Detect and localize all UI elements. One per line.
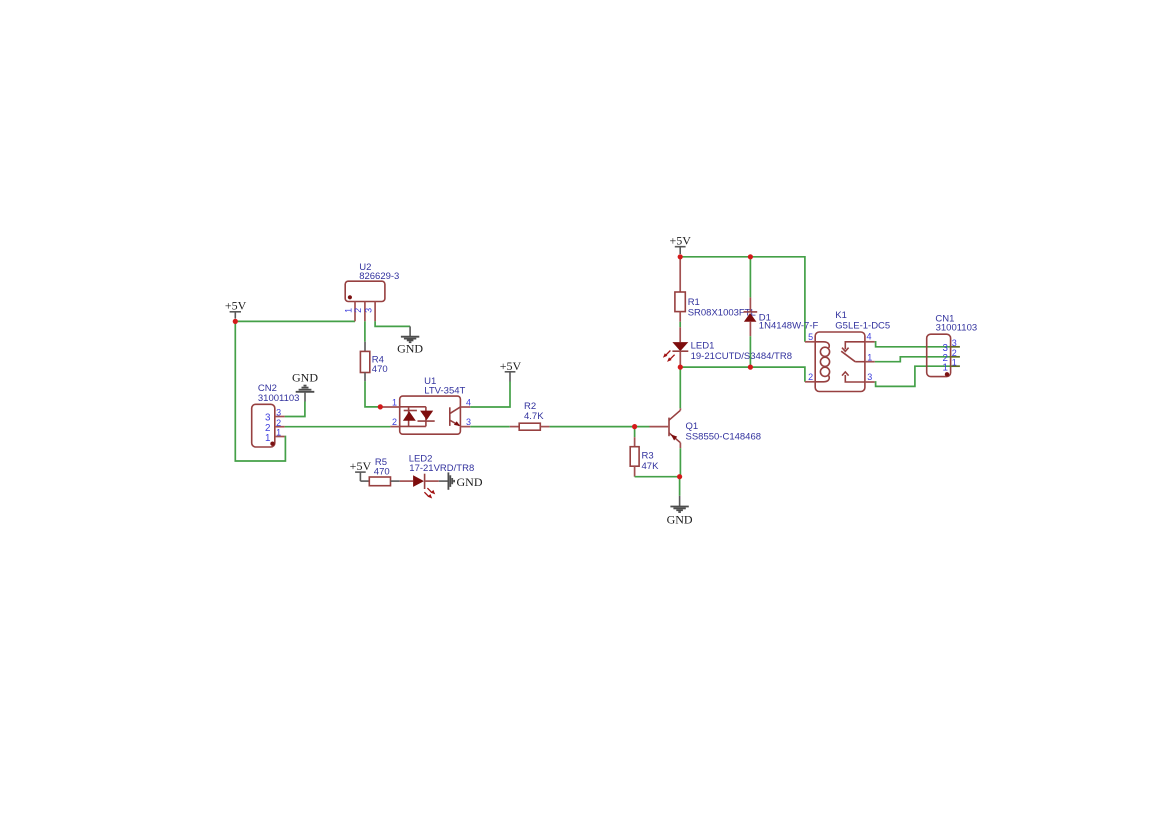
connector U2	[345, 281, 385, 321]
wire K1 pin3 to CN1 pin1	[875, 366, 951, 386]
relay K1 G5LE-1-DC5	[805, 332, 875, 392]
node junction at Q1 emitter / GND	[677, 474, 682, 479]
wire U1 pin3 to R2	[470, 426, 510, 428]
svg-text:826629-3: 826629-3	[359, 271, 399, 282]
svg-text:5: 5	[808, 332, 813, 342]
svg-text:470: 470	[374, 467, 390, 478]
resistor R1	[675, 257, 685, 322]
svg-text:G5LE-1-DC5: G5LE-1-DC5	[835, 320, 890, 331]
wire +5V rail down to D1	[749, 257, 751, 298]
resistor R2	[510, 423, 550, 430]
node junction below LED1	[678, 365, 683, 370]
svg-text:3: 3	[363, 308, 373, 313]
svg-text:R1: R1	[688, 297, 700, 308]
svg-text:LED1: LED1	[691, 340, 715, 351]
svg-text:SS8550-C148468: SS8550-C148468	[686, 432, 762, 443]
ground GND (U2 pin3)	[397, 326, 423, 355]
svg-text:SR08X1003FTL: SR08X1003FTL	[688, 307, 756, 318]
wire D1 to LED1 row	[749, 336, 751, 367]
wire LED2 to GND	[439, 480, 449, 482]
svg-text:GND: GND	[457, 475, 483, 489]
LED1 emission arrows	[663, 351, 675, 362]
node junction at Q1 base / R3	[632, 424, 637, 429]
connector CN2	[252, 404, 285, 447]
wire junction to GND	[679, 477, 681, 496]
wire U2 pin3 to GND	[375, 321, 410, 326]
wire Q1 emitter down	[679, 448, 681, 477]
svg-text:2: 2	[276, 418, 281, 428]
node junction at U1 pin1	[378, 404, 383, 409]
power +5V (top, R1/D1/K1 rail)	[669, 234, 691, 255]
ground GND (below Q1)	[667, 496, 693, 527]
wire LED1 junction down to Q1 collector	[679, 367, 681, 408]
svg-text:Q1: Q1	[686, 421, 699, 432]
svg-text:47K: 47K	[642, 461, 660, 472]
svg-text:GND: GND	[292, 371, 318, 385]
svg-text:3: 3	[466, 417, 471, 427]
wire R1 to LED1	[679, 322, 681, 327]
wire U2 pin2 to R4	[364, 321, 366, 342]
LED LED1	[672, 327, 688, 367]
svg-text:1: 1	[276, 428, 281, 438]
svg-text:470: 470	[372, 364, 388, 375]
svg-text:3: 3	[276, 408, 281, 418]
svg-text:GND: GND	[667, 513, 693, 527]
ground GND (LED2, rotated)	[448, 472, 482, 489]
svg-text:LTV-354T: LTV-354T	[424, 386, 465, 397]
svg-text:3: 3	[952, 338, 957, 348]
power +5V (left, net +5V)	[225, 299, 247, 319]
svg-text:1: 1	[943, 362, 948, 373]
svg-text:1: 1	[867, 353, 872, 363]
wire +5V to U2 pin1	[235, 320, 355, 322]
transistor Q1	[650, 408, 681, 448]
wire +5V down to CN2 pin1	[235, 321, 285, 461]
svg-text:31001103: 31001103	[936, 322, 978, 333]
svg-text:1: 1	[952, 357, 957, 367]
connector CN1	[927, 334, 960, 376]
power +5V (above R5)	[350, 459, 372, 481]
power +5V (above U1 pin4)	[500, 359, 522, 381]
wire Q1 base junction to R3	[634, 427, 636, 438]
svg-text:+5V: +5V	[350, 459, 372, 473]
resistor R5	[369, 477, 400, 486]
wire +5V rail to K1 pin5	[680, 257, 805, 342]
svg-text:1: 1	[392, 397, 397, 407]
wire LED1 row to K1 pin2	[680, 367, 805, 382]
wire U1 pin4 to +5V	[470, 382, 510, 408]
LED2 emission arrows	[424, 488, 435, 498]
svg-text:2: 2	[808, 372, 813, 382]
wire R2 to Q1 base	[550, 426, 650, 428]
svg-text:+5V: +5V	[225, 299, 247, 313]
ground GND (CN2 pin3, flipped)	[292, 371, 318, 402]
svg-text:1N4148W-7-F: 1N4148W-7-F	[759, 321, 819, 332]
wire R3 to Q1 emitter	[635, 476, 680, 478]
node junction at +5V rail	[678, 254, 683, 259]
svg-text:4.7K: 4.7K	[524, 411, 544, 422]
LED LED2	[400, 474, 439, 489]
svg-text:1: 1	[265, 433, 270, 444]
wire CN2 pin2 to U1 pin2	[285, 426, 391, 428]
op-toisolator U1 LTV-354T	[380, 396, 470, 434]
svg-text:+5V: +5V	[669, 234, 691, 248]
wire K1 pin4 to CN1 pin3	[875, 342, 951, 347]
svg-text:19-21CUTD/S3484/TR8: 19-21CUTD/S3484/TR8	[691, 351, 792, 362]
node junction at D1 top	[748, 254, 753, 259]
svg-text:2: 2	[353, 308, 363, 313]
diode D1	[744, 297, 758, 336]
node junction at +5V left	[233, 319, 238, 324]
svg-text:4: 4	[466, 397, 471, 407]
svg-text:3: 3	[867, 372, 872, 382]
wire +5V to R5	[360, 480, 369, 482]
svg-text:GND: GND	[397, 342, 423, 356]
svg-text:4: 4	[867, 332, 872, 342]
svg-text:31001103: 31001103	[258, 393, 300, 404]
svg-text:1: 1	[343, 308, 353, 313]
resistor R4	[360, 342, 369, 382]
svg-text:2: 2	[392, 417, 397, 427]
wire CN2 pin3 to GND	[285, 402, 305, 417]
wire R4 to U1 pin1	[365, 381, 380, 407]
svg-text:17-21VRD/TR8: 17-21VRD/TR8	[409, 463, 474, 474]
wire K1 pin1 to CN1 pin2	[875, 357, 951, 362]
resistor R3	[630, 437, 639, 477]
node junction at D1 bottom	[748, 365, 753, 370]
